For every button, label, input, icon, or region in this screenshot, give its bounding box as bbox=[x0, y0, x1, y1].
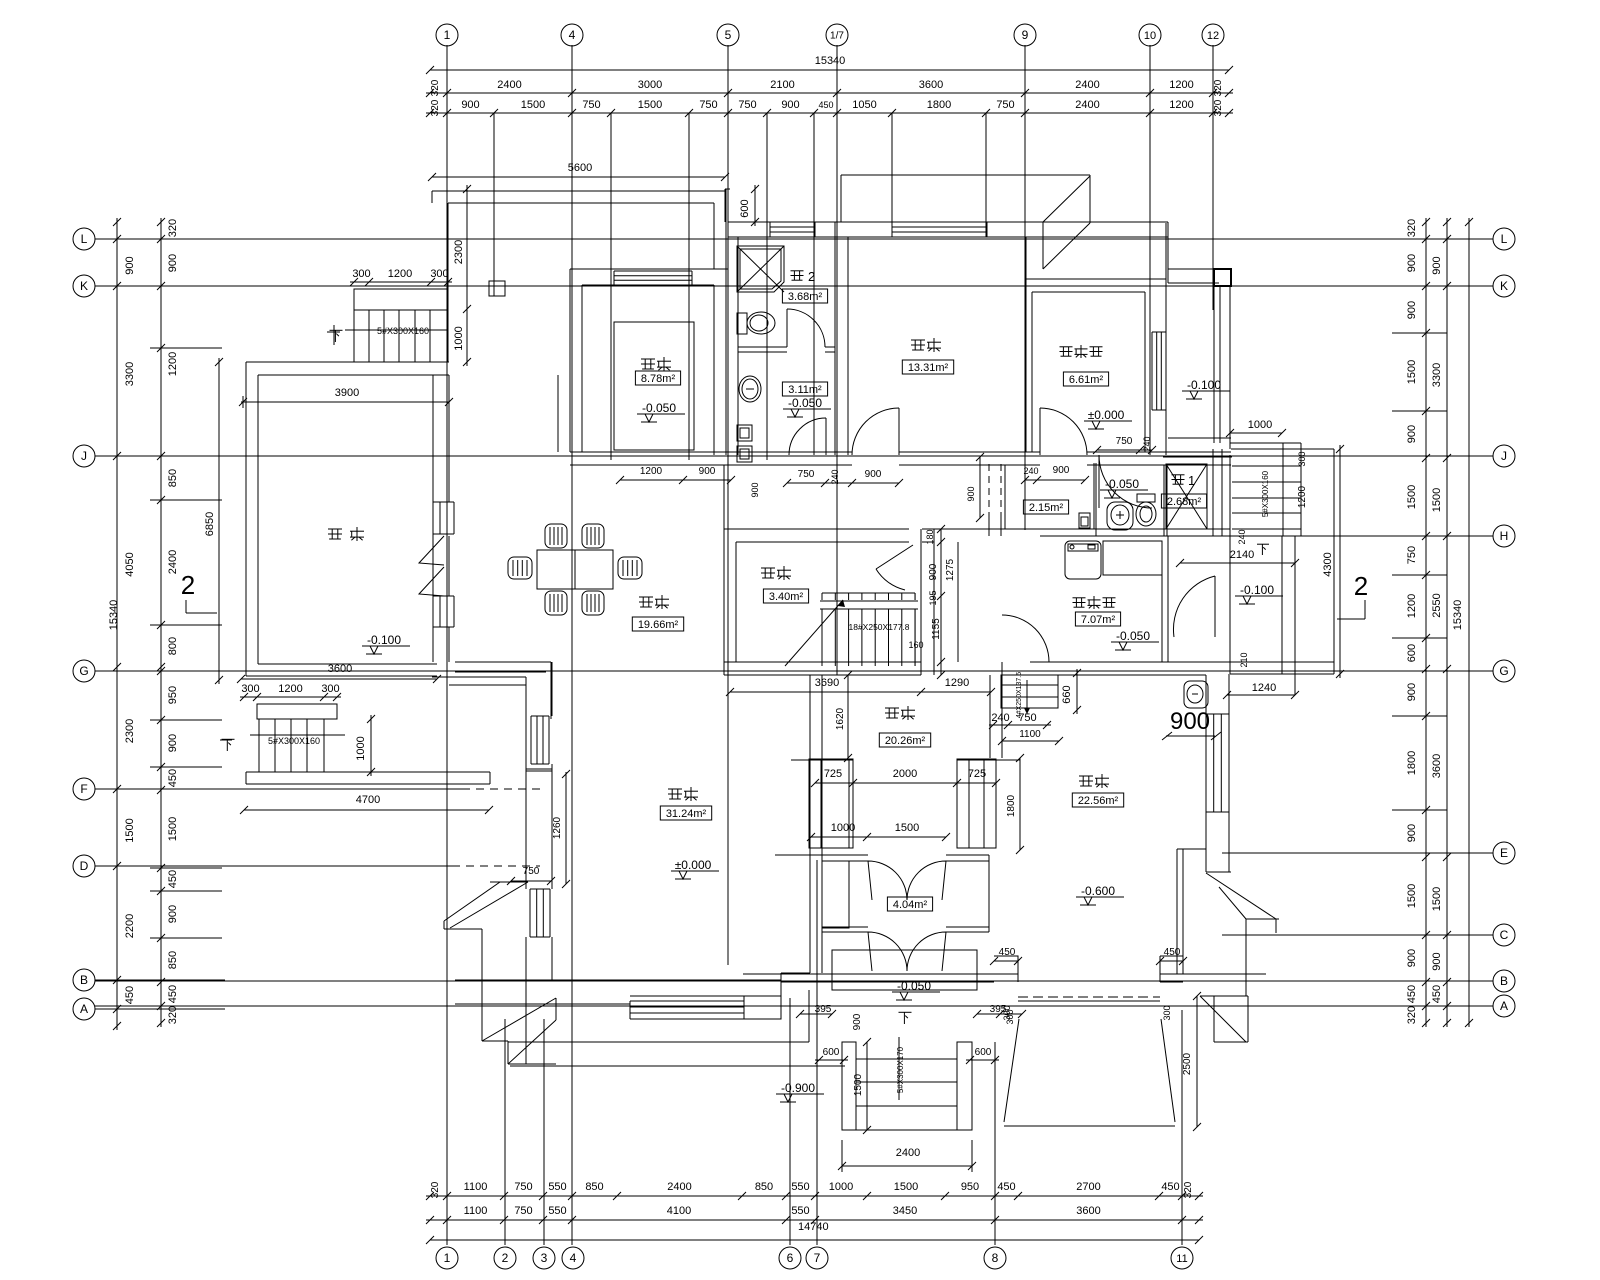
bath1 shower bbox=[1166, 464, 1207, 529]
svg-text:750: 750 bbox=[738, 99, 756, 111]
svg-text:3600: 3600 bbox=[328, 663, 352, 675]
svg-text:300: 300 bbox=[430, 268, 448, 280]
svg-text:450: 450 bbox=[1161, 1181, 1179, 1193]
svg-text:1200: 1200 bbox=[167, 352, 179, 376]
svg-text:1260: 1260 bbox=[552, 816, 563, 839]
svg-text:J: J bbox=[81, 449, 87, 463]
svg-text:1200: 1200 bbox=[1297, 485, 1308, 508]
right sub-row stub bbox=[1392, 809, 1447, 811]
svg-text:-0.900: -0.900 bbox=[781, 1081, 815, 1095]
svg-text:1500: 1500 bbox=[1406, 485, 1418, 509]
axis line bbox=[95, 238, 1493, 240]
square column on axis K bbox=[489, 281, 505, 296]
svg-text:B: B bbox=[80, 973, 88, 987]
svg-text:15340: 15340 bbox=[1452, 600, 1464, 631]
svg-text:900: 900 bbox=[1406, 949, 1418, 967]
axis bubble 12 top bbox=[1202, 24, 1224, 46]
svg-text:F: F bbox=[80, 782, 87, 796]
door bath2 bbox=[787, 309, 825, 347]
axis line L left bbox=[95, 238, 225, 240]
svg-text:12: 12 bbox=[1207, 30, 1219, 42]
svg-text:1290: 1290 bbox=[945, 677, 969, 689]
svg-text:900: 900 bbox=[750, 482, 760, 497]
svg-text:750: 750 bbox=[798, 469, 815, 480]
svg-text:1: 1 bbox=[444, 28, 451, 42]
svg-text:1500: 1500 bbox=[521, 99, 545, 111]
svg-text:1500: 1500 bbox=[124, 818, 136, 842]
svg-text:1200: 1200 bbox=[1406, 594, 1418, 618]
svg-text:900: 900 bbox=[1406, 824, 1418, 842]
dim 600 canopy bbox=[754, 185, 756, 226]
svg-text:14740: 14740 bbox=[798, 1221, 829, 1233]
svg-text:850: 850 bbox=[167, 951, 179, 969]
axis line C right bbox=[1360, 934, 1493, 936]
svg-text:3600: 3600 bbox=[919, 79, 943, 91]
svg-text:900: 900 bbox=[1406, 254, 1418, 272]
laundry washer bbox=[1065, 541, 1101, 579]
lower terrace stair bbox=[257, 704, 337, 719]
axis bubble B right bbox=[1493, 970, 1515, 992]
svg-text:850: 850 bbox=[755, 1181, 773, 1193]
svg-text:22.56m²: 22.56m² bbox=[1078, 795, 1119, 807]
svg-text:2300: 2300 bbox=[453, 240, 465, 264]
svg-text:1500: 1500 bbox=[167, 817, 179, 841]
svg-text:1500: 1500 bbox=[1406, 884, 1418, 908]
svg-text:-0.100: -0.100 bbox=[367, 633, 401, 647]
bath1 toilet bbox=[1137, 494, 1155, 502]
svg-text:-0.100: -0.100 bbox=[1187, 378, 1221, 392]
svg-text:300: 300 bbox=[352, 268, 370, 280]
svg-text:3690: 3690 bbox=[815, 677, 839, 689]
garage internal stair bbox=[1001, 675, 1058, 708]
svg-text:G: G bbox=[79, 664, 88, 678]
north rooms south wall / corridor north bbox=[570, 451, 852, 453]
porch piers bbox=[809, 759, 853, 848]
living west window upper bbox=[530, 716, 532, 764]
axis line bbox=[95, 865, 460, 867]
axis extension bbox=[836, 45, 838, 113]
terrace SE planter bbox=[455, 661, 551, 663]
axis line G right bbox=[1360, 670, 1493, 672]
svg-text:240: 240 bbox=[1023, 466, 1038, 476]
axis line K left bbox=[95, 285, 225, 287]
svg-text:8.78m²: 8.78m² bbox=[641, 373, 676, 385]
corridor south wall bbox=[724, 528, 909, 530]
axis extension bbox=[727, 45, 729, 113]
svg-text:K: K bbox=[1500, 279, 1508, 293]
svg-text:600: 600 bbox=[1406, 644, 1418, 662]
axis bubble 7 bottom bbox=[806, 1247, 828, 1269]
grid line bbox=[1212, 113, 1214, 310]
svg-text:750: 750 bbox=[523, 866, 540, 877]
svg-text:1240: 1240 bbox=[1252, 682, 1276, 694]
svg-text:900: 900 bbox=[966, 486, 976, 501]
svg-text:4050: 4050 bbox=[124, 552, 136, 576]
axis bubble 3 bottom bbox=[533, 1247, 555, 1269]
axis line D left bbox=[95, 865, 225, 867]
grid line bbox=[543, 1019, 545, 1245]
svg-text:320: 320 bbox=[1406, 1006, 1418, 1024]
svg-text:1200: 1200 bbox=[1169, 79, 1193, 91]
bath2 west wall bbox=[725, 189, 727, 455]
garage door dashed bbox=[1018, 996, 1160, 998]
svg-text:1500: 1500 bbox=[1431, 887, 1443, 911]
svg-text:11: 11 bbox=[1176, 1253, 1187, 1265]
bottom dim row2 bbox=[426, 1219, 1203, 1221]
svg-text:240: 240 bbox=[991, 712, 1009, 724]
workers room east wall bbox=[1144, 292, 1146, 452]
label laundry bbox=[1073, 597, 1086, 599]
axis line L right bbox=[1360, 238, 1493, 240]
axis line bbox=[95, 455, 1493, 457]
svg-text:6.61m²: 6.61m² bbox=[1069, 374, 1104, 386]
svg-text:B: B bbox=[1500, 974, 1508, 988]
svg-text:9: 9 bbox=[1022, 28, 1029, 42]
axis line bbox=[1150, 535, 1493, 537]
svg-text:900: 900 bbox=[1431, 256, 1443, 274]
north wall band bedroom/bath bbox=[728, 221, 1168, 223]
svg-text:900: 900 bbox=[1406, 425, 1418, 443]
garage east wall bbox=[1205, 675, 1207, 872]
axis line K right bbox=[1360, 285, 1493, 287]
door wc 2.15 bbox=[1099, 455, 1152, 508]
svg-text:2400: 2400 bbox=[1075, 79, 1099, 91]
axis line E right bbox=[1360, 852, 1493, 854]
svg-text:1200: 1200 bbox=[1169, 99, 1193, 111]
right sub-row stub bbox=[1392, 332, 1447, 334]
label wc 2.15 bbox=[1023, 500, 1068, 514]
svg-text:5#X300X160: 5#X300X160 bbox=[377, 326, 429, 336]
axis bubble L left bbox=[73, 228, 95, 250]
svg-text:320: 320 bbox=[1213, 99, 1224, 116]
label living bbox=[668, 788, 682, 790]
label bedroom bbox=[911, 339, 925, 341]
svg-text:J: J bbox=[1501, 449, 1507, 463]
door bath 3.11 bbox=[789, 418, 826, 455]
svg-text:450: 450 bbox=[1406, 985, 1418, 1003]
svg-text:15340: 15340 bbox=[108, 600, 120, 631]
svg-text:900: 900 bbox=[167, 734, 179, 752]
svg-text:2.68m²: 2.68m² bbox=[1167, 496, 1202, 508]
svg-text:195: 195 bbox=[928, 590, 938, 605]
grid line bbox=[1181, 1010, 1183, 1245]
garage west wall bbox=[989, 675, 991, 758]
svg-text:5#X300X170: 5#X300X170 bbox=[896, 1046, 905, 1093]
svg-text:450: 450 bbox=[1431, 985, 1443, 1003]
porch double door lower bbox=[868, 932, 907, 971]
laundry walls bbox=[1040, 528, 1230, 530]
svg-text:1/7: 1/7 bbox=[830, 31, 844, 42]
axis bubble 1/7 top bbox=[826, 24, 848, 46]
garage driveway ramp bbox=[1004, 1019, 1019, 1122]
roof slab over bedroom bbox=[841, 174, 1090, 176]
svg-text:5600: 5600 bbox=[568, 162, 592, 174]
axis bubble H right bbox=[1493, 525, 1515, 547]
svg-text:600: 600 bbox=[823, 1047, 840, 1058]
svg-text:3300: 3300 bbox=[124, 362, 136, 386]
SE chimney block bbox=[1200, 996, 1246, 1042]
workers room west wall bbox=[1025, 237, 1027, 452]
interior stair in storage bbox=[820, 600, 918, 602]
svg-text:320: 320 bbox=[1183, 1181, 1194, 1198]
grid line bbox=[571, 113, 573, 1245]
svg-text:450: 450 bbox=[167, 870, 179, 888]
axis bubble 4 bottom bbox=[562, 1247, 584, 1269]
axis line A left bbox=[95, 1008, 225, 1010]
svg-text:1100: 1100 bbox=[464, 1181, 488, 1193]
svg-text:395: 395 bbox=[815, 1004, 832, 1015]
svg-text:2200: 2200 bbox=[124, 914, 136, 938]
svg-text:240: 240 bbox=[1142, 436, 1152, 451]
living room west wall bbox=[525, 677, 527, 716]
svg-text:2300: 2300 bbox=[124, 719, 136, 743]
svg-text:240: 240 bbox=[1237, 529, 1247, 544]
svg-text:2: 2 bbox=[1354, 571, 1368, 601]
svg-text:-0.050: -0.050 bbox=[1105, 477, 1139, 491]
bottom dim row1 bbox=[426, 1195, 1203, 1197]
grid line bbox=[1149, 113, 1151, 455]
axis line J left bbox=[95, 455, 225, 457]
axis line A right bbox=[1360, 1005, 1493, 1007]
axis line F left bbox=[95, 788, 225, 790]
svg-text:900: 900 bbox=[167, 254, 179, 272]
axis line B right bbox=[1360, 980, 1493, 982]
svg-text:19.66m²: 19.66m² bbox=[638, 619, 679, 631]
living west window lower bbox=[529, 889, 531, 937]
svg-text:4100: 4100 bbox=[667, 1205, 691, 1217]
svg-text:2: 2 bbox=[181, 570, 195, 600]
svg-text:180: 180 bbox=[925, 529, 935, 544]
svg-text:1000: 1000 bbox=[453, 326, 465, 350]
svg-text:4: 4 bbox=[569, 28, 576, 42]
svg-text:160: 160 bbox=[908, 640, 923, 650]
svg-text:-0.050: -0.050 bbox=[897, 979, 931, 993]
axis bubble L right bbox=[1493, 228, 1515, 250]
svg-text:-0.050: -0.050 bbox=[642, 401, 676, 415]
svg-text:13.31m²: 13.31m² bbox=[908, 362, 949, 374]
east stair shaft bbox=[1282, 443, 1284, 536]
svg-text:450: 450 bbox=[999, 947, 1016, 958]
SW chimney blocks 3d bbox=[490, 881, 528, 883]
label bath1 bbox=[1172, 474, 1185, 476]
svg-text:2400: 2400 bbox=[167, 550, 179, 574]
grid line bbox=[836, 113, 838, 675]
svg-text:7.07m²: 7.07m² bbox=[1081, 614, 1116, 626]
dining table bbox=[537, 550, 613, 589]
svg-text:3900: 3900 bbox=[335, 387, 359, 399]
front entry stair bbox=[842, 1042, 856, 1130]
axis bubble 4 top bbox=[561, 24, 583, 46]
bath1 sink bbox=[1107, 502, 1133, 530]
axis bubble 5 top bbox=[717, 24, 739, 46]
right sub-row stub bbox=[1392, 715, 1447, 717]
svg-text:1100: 1100 bbox=[1019, 729, 1041, 740]
svg-text:-0.050: -0.050 bbox=[1116, 629, 1150, 643]
svg-text:4.04m²: 4.04m² bbox=[893, 899, 928, 911]
svg-text:18#X250X177.8: 18#X250X177.8 bbox=[849, 622, 910, 632]
svg-text:900: 900 bbox=[167, 905, 179, 923]
svg-text:6850: 6850 bbox=[204, 512, 216, 536]
svg-text:1500: 1500 bbox=[895, 822, 919, 834]
terrace french door zigzag bbox=[419, 536, 444, 565]
grid line bbox=[504, 1019, 506, 1245]
svg-text:3: 3 bbox=[541, 1251, 548, 1265]
axis bubble J right bbox=[1493, 445, 1515, 467]
axis bubble 10 top bbox=[1139, 24, 1161, 46]
svg-text:1200: 1200 bbox=[640, 466, 663, 477]
svg-text:320: 320 bbox=[1213, 79, 1224, 96]
svg-text:750: 750 bbox=[996, 99, 1014, 111]
grid line bbox=[891, 113, 893, 237]
grid line bbox=[446, 113, 448, 1245]
wall between bath2 and bedroom bbox=[834, 222, 836, 455]
svg-text:750: 750 bbox=[514, 1205, 532, 1217]
svg-text:K: K bbox=[80, 279, 88, 293]
dim 2300/1000 bbox=[466, 185, 468, 366]
svg-text:3000: 3000 bbox=[638, 79, 662, 91]
dining west window lower bbox=[432, 596, 434, 627]
label bath 3.11 bbox=[782, 382, 827, 396]
living room west wall lower bbox=[525, 937, 527, 1004]
svg-text:G: G bbox=[1499, 664, 1508, 678]
garage south piers bbox=[743, 973, 1018, 975]
door laundry east bbox=[1173, 576, 1215, 637]
door workers room bbox=[1040, 408, 1087, 455]
entry stoop bbox=[832, 950, 977, 990]
svg-text:210: 210 bbox=[1239, 652, 1249, 667]
svg-text:1200: 1200 bbox=[278, 683, 302, 695]
window W2 north bedroom bbox=[892, 221, 987, 223]
dining chairs bbox=[545, 524, 567, 548]
svg-text:20.26m²: 20.26m² bbox=[885, 735, 926, 747]
bath2 toilet bbox=[737, 313, 747, 334]
workers room east window bbox=[1151, 332, 1153, 410]
svg-text:450: 450 bbox=[167, 985, 179, 1003]
svg-text:1000: 1000 bbox=[355, 736, 367, 760]
svg-text:320: 320 bbox=[1406, 219, 1418, 237]
svg-text:600: 600 bbox=[739, 199, 751, 217]
svg-text:300: 300 bbox=[241, 683, 259, 695]
axis line bbox=[95, 1005, 1493, 1007]
svg-text:2400: 2400 bbox=[667, 1181, 691, 1193]
grid line bbox=[610, 113, 612, 460]
kitchen counter bbox=[614, 322, 694, 450]
svg-text:3300: 3300 bbox=[1431, 363, 1443, 387]
dining west window upper bbox=[432, 502, 434, 534]
svg-text:±0.000: ±0.000 bbox=[1088, 408, 1125, 422]
svg-text:3.40m²: 3.40m² bbox=[769, 591, 804, 603]
svg-text:900: 900 bbox=[1170, 708, 1210, 735]
axis bubble B left bbox=[73, 969, 95, 991]
svg-text:850: 850 bbox=[585, 1181, 603, 1193]
grid line bbox=[813, 113, 815, 455]
svg-text:C: C bbox=[1500, 928, 1509, 942]
left sub-row stub bbox=[150, 766, 222, 768]
terrace north wall bbox=[246, 361, 449, 363]
east stair treads bbox=[1232, 465, 1301, 467]
label storage bbox=[761, 567, 775, 569]
svg-text:2500: 2500 bbox=[1182, 1052, 1193, 1075]
left sub-row stub bbox=[150, 890, 222, 892]
axis bubble K right bbox=[1493, 275, 1515, 297]
svg-text:900: 900 bbox=[865, 469, 882, 480]
east wall of NE court bbox=[1213, 286, 1215, 443]
NE corner step wall bbox=[1167, 222, 1169, 283]
axis bubble F left bbox=[73, 778, 95, 800]
svg-text:320: 320 bbox=[430, 79, 441, 96]
window W1 north bath bbox=[770, 221, 815, 223]
axis line bbox=[95, 788, 470, 790]
grid line bbox=[493, 113, 495, 296]
left sub-row stub bbox=[150, 867, 222, 869]
svg-text:1500: 1500 bbox=[853, 1073, 864, 1096]
svg-text:4700: 4700 bbox=[356, 794, 380, 806]
label dining bbox=[639, 596, 653, 598]
svg-text:2400: 2400 bbox=[896, 1147, 920, 1159]
svg-text:1155: 1155 bbox=[931, 618, 942, 640]
svg-text:-0.050: -0.050 bbox=[788, 396, 822, 410]
kitchen east wall bbox=[713, 285, 715, 455]
garage basin bbox=[1184, 681, 1208, 708]
svg-text:300: 300 bbox=[1162, 1005, 1172, 1020]
bath1 walls bbox=[1163, 465, 1165, 536]
axis line bbox=[95, 980, 1493, 982]
storage walls bbox=[723, 465, 725, 675]
svg-text:H: H bbox=[1500, 529, 1509, 543]
svg-text:7: 7 bbox=[814, 1251, 821, 1265]
label bath2 bbox=[791, 270, 804, 272]
top dim row2 bbox=[426, 112, 1233, 114]
svg-text:31.24m²: 31.24m² bbox=[666, 808, 707, 820]
svg-text:450: 450 bbox=[818, 100, 833, 110]
svg-text:660: 660 bbox=[1061, 685, 1073, 703]
svg-text:1275: 1275 bbox=[945, 558, 956, 581]
axis extension bbox=[1149, 45, 1151, 113]
svg-text:750: 750 bbox=[1406, 546, 1418, 564]
svg-text:15340: 15340 bbox=[815, 55, 846, 67]
svg-text:A: A bbox=[1500, 999, 1508, 1013]
svg-text:A: A bbox=[80, 1002, 88, 1016]
svg-text:3.11m²: 3.11m² bbox=[788, 384, 822, 396]
grid line bbox=[727, 113, 729, 965]
svg-text:1000: 1000 bbox=[829, 1181, 853, 1193]
svg-text:3450: 3450 bbox=[893, 1205, 917, 1217]
bath2/bath3 divider wall bbox=[738, 346, 787, 348]
living south wall bbox=[455, 979, 781, 981]
axis bubble A left bbox=[73, 998, 95, 1020]
svg-text:600: 600 bbox=[975, 1047, 992, 1058]
svg-text:2400: 2400 bbox=[497, 79, 521, 91]
axis line G left bbox=[95, 670, 225, 672]
svg-text:1800: 1800 bbox=[927, 99, 951, 111]
right sub-row stub bbox=[1392, 574, 1447, 576]
svg-text:900: 900 bbox=[124, 256, 136, 274]
axis bubble E right bbox=[1493, 842, 1515, 864]
chimney top bbox=[1043, 176, 1090, 222]
svg-text:4: 4 bbox=[570, 1251, 577, 1265]
axis bubble 1 bottom bbox=[436, 1247, 458, 1269]
axis extension bbox=[1212, 45, 1214, 113]
svg-text:1500: 1500 bbox=[1406, 360, 1418, 384]
svg-text:1100: 1100 bbox=[464, 1205, 488, 1217]
bath3 sink bbox=[739, 376, 761, 402]
workers room north wall bbox=[1026, 278, 1166, 280]
axis bubble 6 bottom bbox=[779, 1247, 801, 1269]
svg-text:800: 800 bbox=[167, 637, 179, 655]
living south window bbox=[630, 1000, 744, 1002]
svg-text:750: 750 bbox=[582, 99, 600, 111]
svg-text:450: 450 bbox=[124, 986, 136, 1004]
